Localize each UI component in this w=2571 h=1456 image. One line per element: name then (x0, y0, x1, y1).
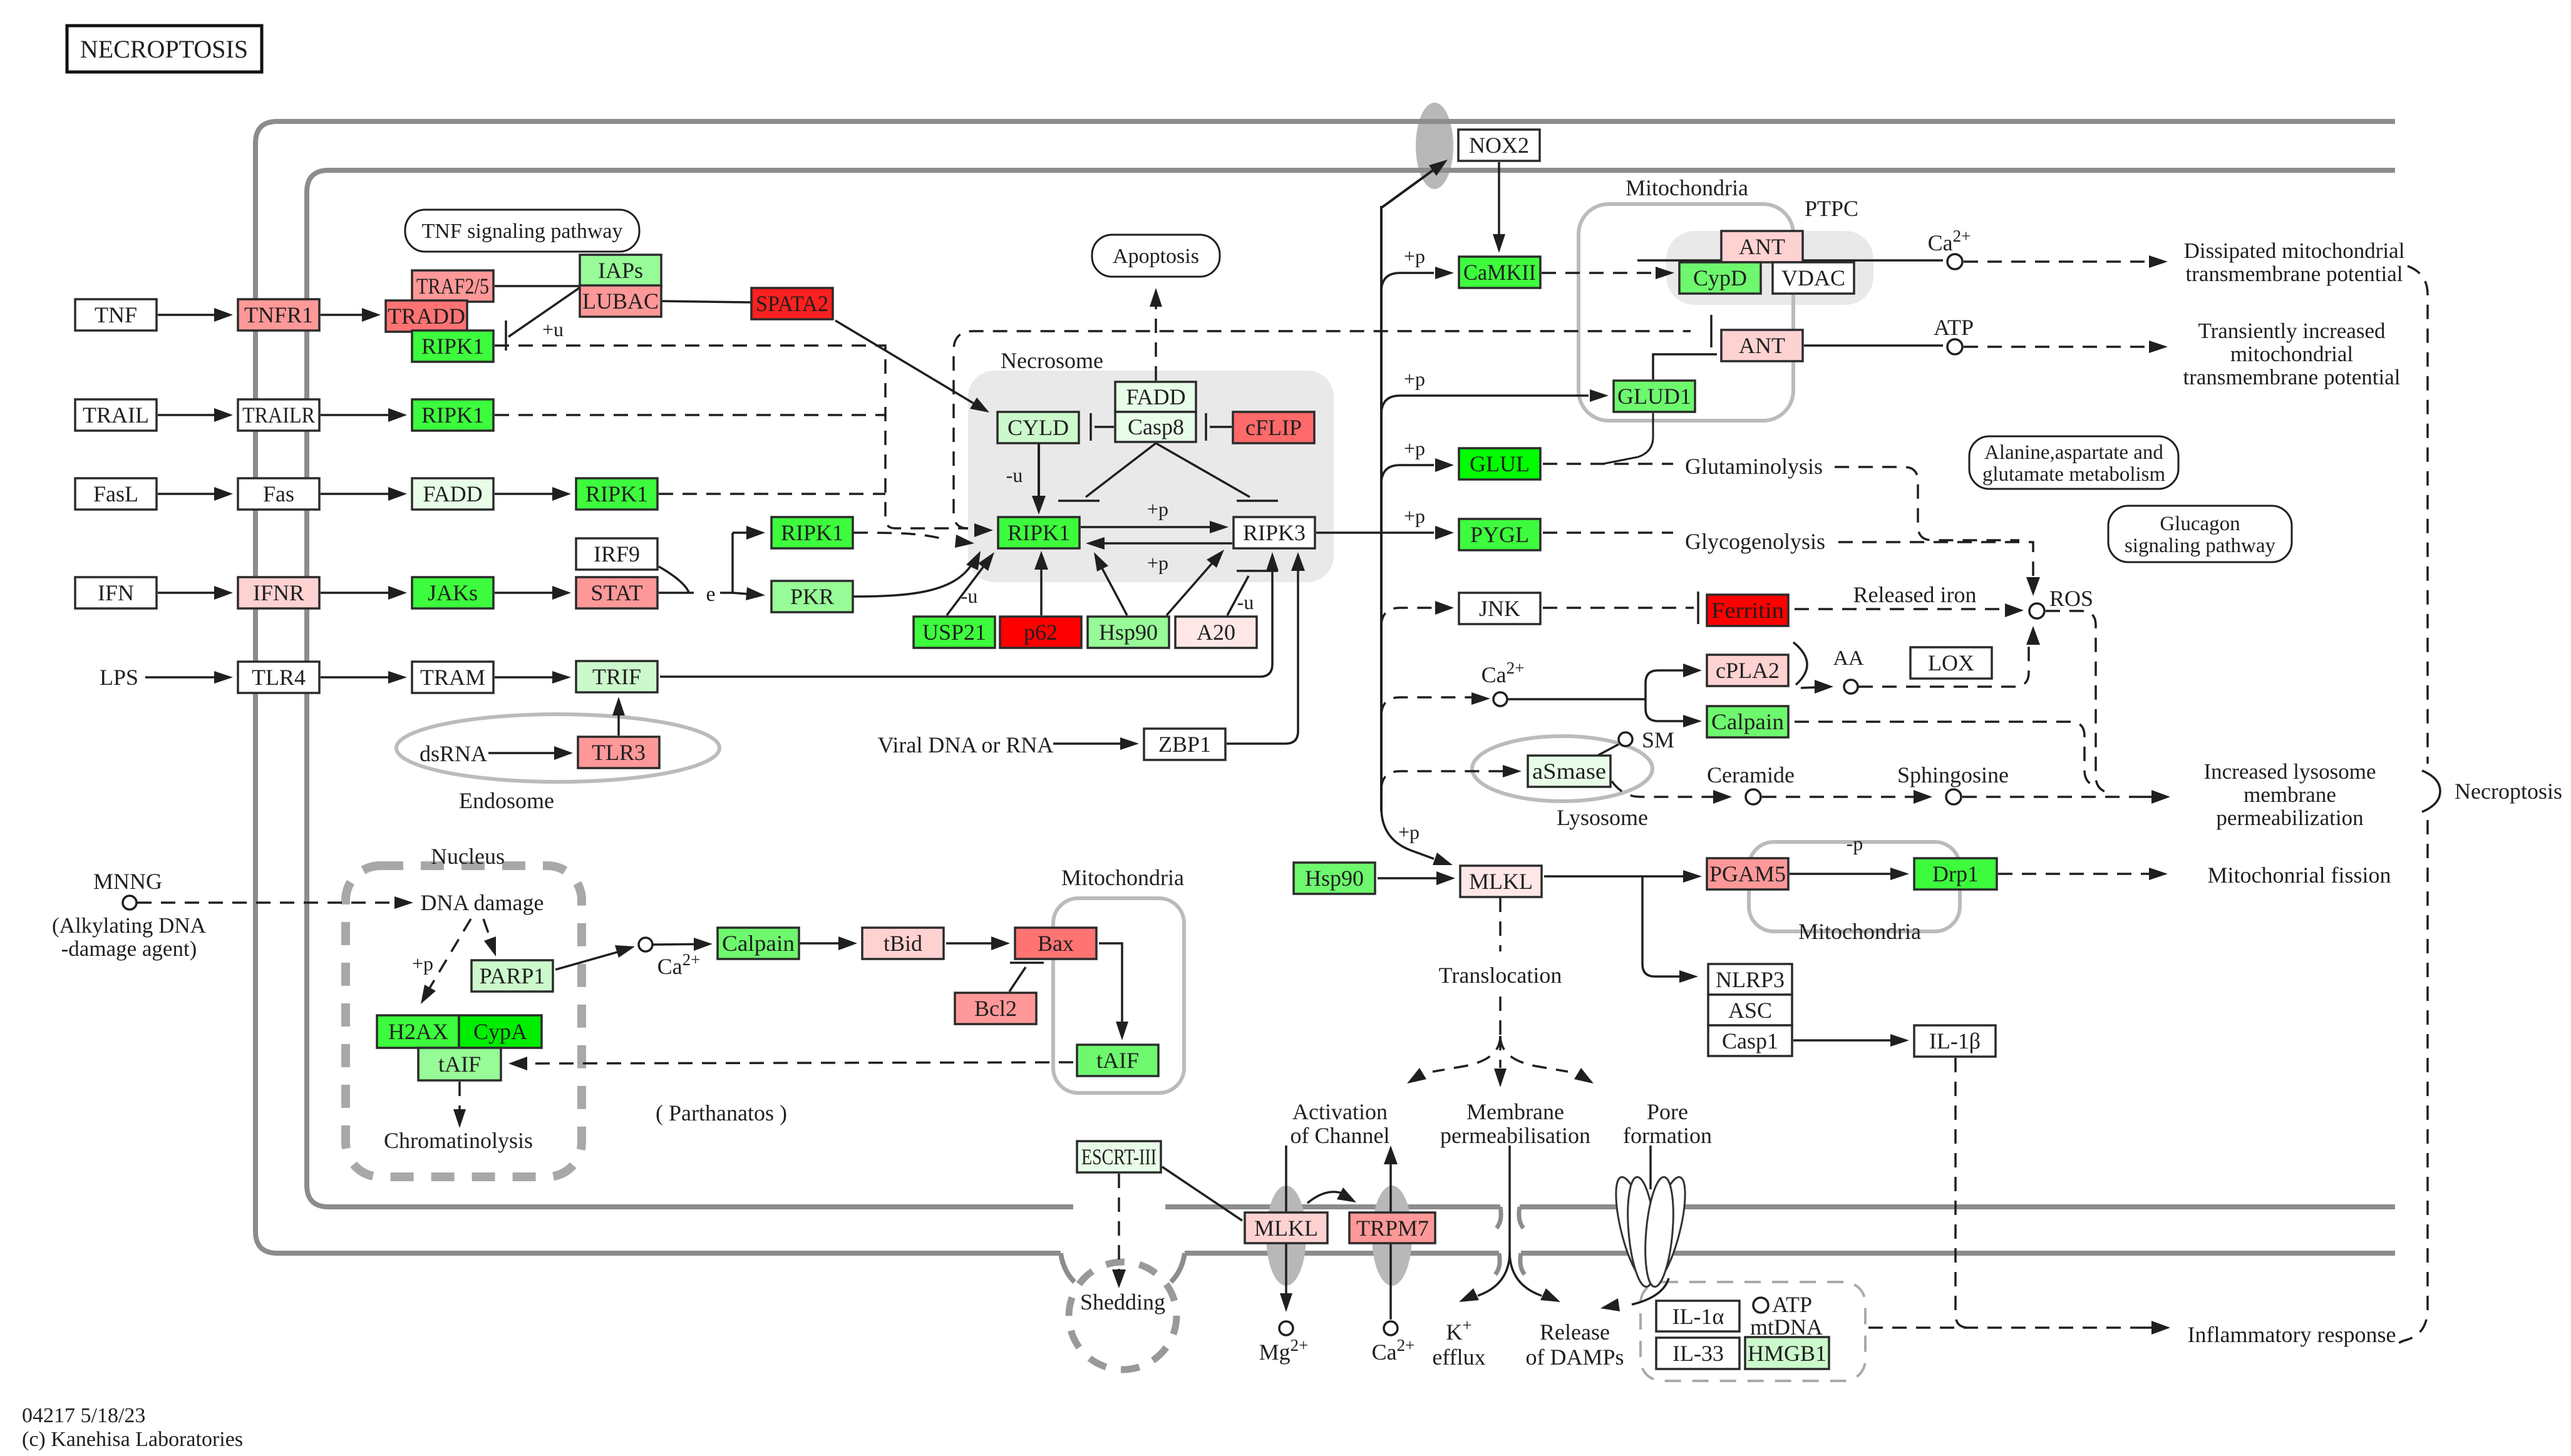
wire Ca to Calpain (653, 943, 700, 945)
wire RIPK1 (IFN row) dashed to necrosome (853, 533, 945, 540)
svg-text:LOX: LOX (1928, 650, 1974, 675)
node AA circle (1844, 680, 1858, 694)
wire vertical to NOX2 (1381, 168, 1436, 208)
gene box HMGB1 (1745, 1337, 1829, 1369)
node ATP circle (1947, 339, 1962, 354)
wire tAIF to Chromatinolysis dashed (458, 1082, 461, 1113)
svg-text:RIPK1: RIPK1 (1007, 520, 1070, 545)
wire Fas to FADD (321, 493, 394, 495)
necrosome gray blob (968, 371, 1334, 582)
svg-text:CaMKII: CaMKII (1463, 260, 1536, 285)
gene box RIPK1 (necrosome) (998, 517, 1079, 548)
wire IFNR to JAKs (321, 592, 394, 594)
svg-text:Endosome: Endosome (459, 788, 554, 813)
endosome ellipse (396, 714, 719, 782)
wire ANT to ATP circle (1804, 344, 1943, 347)
svg-text:CYLD: CYLD (1007, 415, 1069, 440)
svg-text:glutamate metabolism: glutamate metabolism (1982, 463, 2166, 486)
gene box FADD (Fas row) (412, 478, 493, 510)
node Ca circle (nucleus) (639, 938, 652, 951)
svg-text:-p: -p (1847, 832, 1863, 854)
wire Calpain to tBid (800, 942, 845, 945)
svg-text:+p: +p (1404, 367, 1425, 390)
svg-text:FADD: FADD (423, 481, 482, 506)
svg-text:+p: +p (1147, 498, 1168, 520)
svg-text:Mitochondria: Mitochondria (1061, 865, 1184, 890)
svg-text:Shedding: Shedding (1080, 1289, 1165, 1315)
branch +p to GLUD1 (1381, 396, 1589, 414)
wire TNF to TNFR1 (158, 314, 220, 316)
svg-text:USP21: USP21 (922, 620, 986, 645)
branch +p to GLUL (1381, 465, 1434, 484)
gene box JNK (1459, 593, 1540, 624)
wire Ca2+ to dissipated dashed (1964, 260, 2155, 263)
wire USP21 -u to RIPK1 (947, 562, 987, 615)
node Sphingosine circle (1946, 789, 1961, 804)
shedding bulge throat left (1061, 1253, 1074, 1282)
channel capsule MLKL (1266, 1186, 1306, 1286)
svg-text:TNF signaling pathway: TNF signaling pathway (421, 220, 622, 243)
title box NECROPTOSIS (67, 26, 262, 72)
svg-text:LUBAC: LUBAC (582, 289, 659, 314)
svg-text:JAKs: JAKs (428, 580, 478, 605)
wire translocation fanout dashed (1499, 997, 1502, 1036)
svg-text:TLR4: TLR4 (252, 665, 306, 690)
wire RIPK1 (FasL row) dashed (659, 493, 885, 495)
svg-text:GLUD1: GLUD1 (1617, 384, 1691, 409)
svg-text:JNK: JNK (1479, 596, 1520, 621)
wire CYLD -u to RIPK1 (1038, 443, 1040, 501)
svg-text:TNFR1: TNFR1 (244, 302, 313, 327)
svg-text:aSmase: aSmase (1532, 759, 1606, 784)
wire Drp1 to fission dashed (1998, 873, 2155, 875)
node Ca2+ circle (cytosol) (1493, 692, 1507, 706)
gene box Casp1 (1708, 1025, 1792, 1056)
wire RIPK1 to RIPK3 +p (1081, 526, 1216, 528)
node Ca2+ circle (dissipated) (1947, 254, 1962, 269)
channel capsule TRPM7 (1372, 1186, 1412, 1286)
wire IRF9 to e (659, 567, 689, 592)
svg-text:ROS: ROS (2049, 586, 2093, 611)
gene box TRPM7 (1349, 1212, 1435, 1243)
wire GLUD1 to ANT (1653, 354, 1717, 379)
svg-text:IL-1β: IL-1β (1929, 1028, 1981, 1054)
wire Hsp90 to MLKL (1378, 877, 1443, 879)
wire dsRNA to TLR3 (488, 752, 560, 754)
wire TRAIL to TRAILR (158, 414, 220, 416)
svg-text:ZBP1: ZBP1 (1158, 732, 1211, 757)
svg-text:SPATA2: SPATA2 (756, 291, 828, 316)
wire permeabilisation to DAMPs (1510, 1252, 1542, 1296)
wire tBid to Bax (946, 942, 997, 945)
gene box TLR3 (578, 737, 659, 768)
node Ceramide circle (1746, 789, 1761, 804)
ligand box TNF (75, 299, 157, 331)
wire IFN to IFNR (158, 592, 220, 594)
wire PYGL to Glycogenolysis dashed (1543, 531, 1673, 534)
svg-text:Calpain: Calpain (1711, 709, 1784, 734)
gene box MLKL (1460, 866, 1542, 897)
wire Bcl2 tee to Bax (1009, 967, 1026, 992)
svg-text:Sphingosine: Sphingosine (1897, 762, 2009, 787)
svg-text:-damage agent): -damage agent) (61, 936, 197, 961)
svg-text:VDAC: VDAC (1781, 265, 1845, 290)
svg-text:Released iron: Released iron (1853, 582, 1977, 607)
svg-text:permeabilisation: permeabilisation (1440, 1123, 1590, 1148)
svg-text:RIPK3: RIPK3 (1243, 520, 1306, 545)
svg-text:( Parthanatos ): ( Parthanatos ) (656, 1100, 787, 1125)
svg-text:Release: Release (1540, 1320, 1610, 1345)
svg-text:TRPM7: TRPM7 (1356, 1216, 1429, 1241)
svg-text:PKR: PKR (790, 584, 834, 609)
wire ZBP1 up to RIPK3 (1227, 567, 1298, 744)
svg-text:Mitochondria: Mitochondria (1626, 175, 1748, 200)
svg-text:+u: +u (542, 318, 564, 341)
wire aSmase to SM (1592, 744, 1619, 759)
wire TRAF2/5 to LUBAC complex (495, 285, 580, 287)
wire Glycogenolysis dashed to ROS (1838, 542, 2033, 582)
svg-text:Lysosome: Lysosome (1557, 805, 1648, 830)
svg-text:FasL: FasL (93, 481, 138, 506)
gene box cFLIP (1233, 412, 1314, 443)
svg-text:Hsp90: Hsp90 (1099, 620, 1158, 645)
svg-text:+p: +p (1404, 437, 1425, 459)
cell membrane channel capsule for NOX2 (1416, 103, 1453, 189)
svg-text:tBid: tBid (884, 931, 922, 956)
svg-text:PYGL: PYGL (1470, 522, 1529, 547)
gene box CypA (459, 1015, 542, 1048)
ligand box TRAIL (75, 399, 157, 431)
mitochondria compartment (tAIF) (1053, 898, 1184, 1093)
svg-text:transmembrane potential: transmembrane potential (2183, 365, 2401, 389)
svg-text:Glycogenolysis: Glycogenolysis (1685, 529, 1825, 554)
svg-text:IFNR: IFNR (253, 580, 304, 605)
svg-text:RIPK1: RIPK1 (781, 520, 843, 545)
gene box ASC (1708, 995, 1792, 1025)
svg-text:NOX2: NOX2 (1469, 133, 1529, 158)
svg-text:Increased lysosome: Increased lysosome (2203, 759, 2376, 784)
svg-text:TLR3: TLR3 (592, 740, 646, 765)
cell membrane outer line (255, 121, 2395, 1253)
wire TRAM to TRIF (495, 676, 559, 679)
gene box CaMKII (1459, 257, 1540, 288)
wire GLUL to Glutaminolysis dashed (1543, 463, 1673, 465)
gene box RIPK3 (1234, 517, 1315, 548)
oval Apoptosis (1092, 235, 1220, 277)
wire STAT to e (659, 592, 694, 594)
svg-text:Casp1: Casp1 (1722, 1028, 1778, 1054)
svg-text:RIPK1: RIPK1 (421, 402, 484, 428)
svg-text:ESCRT-III: ESCRT-III (1081, 1144, 1157, 1169)
svg-text:Glutaminolysis: Glutaminolysis (1685, 454, 1823, 479)
wire SPATA2 to necrosome (835, 320, 974, 404)
wire ESCRT-III to MLKL (1162, 1167, 1242, 1221)
branch Ca2+ dashed (1381, 697, 1475, 716)
svg-text:Inflammatory response: Inflammatory response (2188, 1322, 2396, 1347)
svg-text:signaling pathway: signaling pathway (2125, 535, 2276, 557)
svg-text:Ferritin: Ferritin (1711, 598, 1784, 623)
gene box Calpain (lysosome) (1707, 706, 1788, 737)
receptor box TRAILR (238, 399, 319, 431)
gene box Hsp90 (necrosome) (1088, 617, 1169, 648)
gene box VDAC (1773, 262, 1854, 294)
svg-text:Necrosome: Necrosome (1001, 348, 1103, 373)
wire NOX2 to CaMKII (1498, 162, 1500, 238)
node SM circle (1619, 732, 1632, 746)
wire TRAILR to RIPK1 (321, 414, 394, 416)
wire Viral DNA to ZBP1 (1053, 742, 1126, 745)
gene box RIPK1 (IFN row) (771, 517, 853, 548)
wire MNNG dashed to DNA damage (137, 901, 401, 904)
gene box GLUD1 (1614, 381, 1695, 412)
gene box IAPs (580, 255, 661, 286)
svg-text:permeabilization: permeabilization (2216, 806, 2363, 830)
wire Mg channel line (1285, 1146, 1287, 1295)
svg-text:+p: +p (1404, 505, 1425, 527)
wire Glutaminolysis dashed corner (1835, 467, 2019, 540)
gene box Casp8 (1115, 412, 1196, 442)
svg-text:Apoptosis: Apoptosis (1113, 245, 1199, 268)
gene box aSmase (1528, 756, 1610, 787)
receptor box TLR4 (238, 662, 319, 693)
gene box PKR (771, 581, 853, 612)
wire Casp8 tee to RIPK1 (1086, 443, 1156, 497)
wire mito tAIF dashed to nucleus tAIF (530, 1062, 1073, 1064)
wire CYLD to Casp8 tee (1095, 426, 1114, 428)
gene box IL-1b (1914, 1025, 1996, 1057)
svg-text:MLKL: MLKL (1469, 869, 1533, 894)
wire LUBAC to SPATA2 (662, 301, 751, 302)
wire MLKL branch to NLRP3 (1642, 876, 1681, 977)
oval Alanine aspartate (1969, 436, 2178, 489)
svg-text:Translocation: Translocation (1439, 963, 1562, 988)
svg-text:(c) Kanehisa Laboratories: (c) Kanehisa Laboratories (22, 1428, 243, 1451)
gene box JAKs (412, 577, 493, 608)
wire MLKL right to PGAM5 (1544, 875, 1686, 878)
gene box NLRP3 (1708, 964, 1792, 995)
wire JAKs to STAT (495, 592, 559, 594)
wire e to RIPK1 and PKR bracket (720, 592, 733, 594)
wire pore to DAMPs (1632, 1278, 1669, 1305)
gene box STAT (576, 577, 657, 608)
wire RIPK3 to PYGL (1316, 531, 1434, 534)
svg-text:TRAIL: TRAIL (83, 402, 149, 428)
shedding vesicle dashed circle (1069, 1262, 1177, 1370)
svg-text:AA: AA (1833, 647, 1864, 670)
svg-text:+p: +p (412, 952, 433, 975)
svg-text:Viral DNA or RNA: Viral DNA or RNA (878, 732, 1054, 757)
wire TLR3 to TRIF (617, 709, 620, 736)
ligand box IFN (75, 577, 157, 608)
svg-text:TRIF: TRIF (592, 664, 641, 689)
wire RIPK3 to RIPK1 +p (1098, 542, 1232, 545)
svg-text:STAT: STAT (590, 580, 642, 605)
nucleus dashed compartment (346, 866, 582, 1177)
svg-text:membrane: membrane (2244, 782, 2336, 807)
wire permeabilisation to K efflux (1478, 1252, 1510, 1296)
svg-text:+p: +p (1404, 245, 1425, 267)
gene box Ferritin (1707, 595, 1788, 626)
gene box Bcl2 (955, 993, 1036, 1024)
gene box RIPK1 (TRAIL row) (412, 399, 493, 431)
gene box TRAF2/5 (412, 270, 493, 302)
svg-text:IL-33: IL-33 (1672, 1341, 1724, 1366)
wire complex to Ca2+ circle (1637, 259, 1943, 262)
wire ESCRT-III dashed shedding (1118, 1174, 1120, 1271)
gene box USP21 (914, 617, 995, 648)
svg-text:Bcl2: Bcl2 (974, 996, 1017, 1021)
gene box tAIF (nucleus) (418, 1048, 501, 1080)
wire Bax to tAIF (1099, 943, 1122, 1025)
svg-text:MNNG: MNNG (93, 869, 162, 894)
node ATP circle (DAMPs) (1753, 1298, 1768, 1313)
wire PARP1 to Ca circle (555, 950, 626, 970)
svg-text:Alanine,aspartate and: Alanine,aspartate and (1984, 441, 2163, 464)
wire CaMKII to CypD dashed (1542, 272, 1662, 274)
wire FasL to Fas (158, 493, 220, 495)
wire Ca2+ to cPLA2/Calpain bracket (1508, 698, 1646, 700)
wire ATP to transiently dashed (1964, 346, 2155, 348)
svg-text:ANT: ANT (1739, 333, 1785, 358)
receptor box TNFR1 (238, 299, 319, 331)
svg-text:Bax: Bax (1038, 931, 1074, 956)
branch +p to MLKL (1381, 807, 1434, 859)
gene box cPLA2 (1707, 655, 1788, 686)
svg-text:ATP: ATP (1772, 1292, 1812, 1317)
wire Casp8 tee to RIPK3 (1156, 443, 1250, 497)
wire RIPK3 main vertical (1380, 206, 1383, 811)
wire MLKL to TRPM7 arc (1307, 1192, 1350, 1203)
svg-text:Necroptosis: Necroptosis (2455, 779, 2562, 804)
svg-text:IRF9: IRF9 (594, 541, 640, 567)
gene box Drp1 (1914, 858, 1997, 889)
wire JNK to Ferritin tee dashed (1543, 607, 1694, 609)
svg-text:tAIF: tAIF (438, 1052, 481, 1077)
wire MLKL translocation dashed (1499, 898, 1502, 951)
svg-text:formation: formation (1623, 1123, 1712, 1148)
gene box CypD (1679, 262, 1761, 294)
gene box LUBAC (580, 285, 661, 317)
gene box IL-1a (1656, 1301, 1739, 1331)
svg-text:of Channel: of Channel (1291, 1123, 1390, 1148)
gene box LOX (1910, 647, 1992, 679)
wire IAPs +u to RIPK1 (508, 287, 581, 337)
svg-text:RIPK1: RIPK1 (421, 334, 484, 359)
svg-text:PTPC: PTPC (1805, 196, 1858, 221)
wire Sphingosine to outcome dashed (1962, 796, 2131, 798)
svg-text:IL-1α: IL-1α (1672, 1304, 1724, 1329)
gene box tBid (862, 928, 944, 959)
node MNNG circle (123, 896, 137, 910)
gene box GLUL (1459, 448, 1540, 479)
wire RIPK1 (TRAIL row) dashed (495, 414, 885, 416)
svg-text:CypA: CypA (473, 1019, 527, 1044)
gene box FADD (necrosome) (1115, 382, 1196, 412)
gene box Hsp90 (MLKL) (1294, 863, 1375, 894)
gene box ANT (PTPC) (1721, 231, 1803, 262)
wire Ca influx channel line (1384, 1146, 1398, 1164)
gene box A20 (1175, 617, 1257, 648)
ligand box FasL (75, 478, 157, 510)
wire Hsp90 to RIPK3 (1167, 560, 1215, 615)
gene box TRIF (576, 661, 657, 692)
svg-text:Glucagon: Glucagon (2160, 513, 2240, 535)
svg-text:Mitochondria: Mitochondria (1798, 919, 1921, 944)
svg-text:ANT: ANT (1739, 234, 1785, 259)
svg-text:tAIF: tAIF (1096, 1048, 1139, 1073)
svg-text:PGAM5: PGAM5 (1709, 861, 1786, 886)
svg-text:IFN: IFN (98, 580, 134, 605)
svg-text:DNA damage: DNA damage (421, 890, 544, 915)
pore shape (1609, 1174, 1693, 1288)
wire cPLA2 reaction hook to AA (1793, 642, 1807, 685)
wire cFLIP to Casp8 tee (1210, 426, 1232, 428)
cell membrane inner line (307, 170, 2395, 1207)
svg-text:Drp1: Drp1 (1932, 861, 1979, 886)
wire FADD to RIPK1 (495, 493, 559, 495)
svg-text:GLUL: GLUL (1470, 451, 1530, 476)
gene box ANT (1721, 330, 1803, 361)
gene box PYGL (1459, 519, 1540, 550)
wire membrane permeabilisation line (1508, 1146, 1511, 1252)
wire FADD to Apoptosis dashed (1155, 300, 1157, 381)
wire TLR4 to TRAM (321, 676, 394, 679)
gene box PGAM5 (1707, 858, 1788, 889)
svg-text:Transiently increased: Transiently increased (2198, 319, 2386, 343)
shedding bulge throat right (1171, 1253, 1185, 1282)
necrosome dashed boundary (954, 331, 1691, 528)
svg-text:NLRP3: NLRP3 (1716, 967, 1785, 992)
necroptosis bracket (2422, 771, 2440, 812)
svg-text:IAPs: IAPs (598, 258, 643, 283)
wire Ceramide to Sphingosine dashed (1762, 796, 1921, 798)
branch JNK dashed (1381, 608, 1434, 627)
svg-text:mitochondrial: mitochondrial (2230, 342, 2354, 366)
oval TNF signaling pathway (405, 210, 639, 252)
svg-text:TRAF2/5: TRAF2/5 (416, 274, 489, 299)
svg-text:of DAMPs: of DAMPs (1525, 1345, 1624, 1370)
svg-text:TRAILR: TRAILR (242, 402, 315, 428)
mitochondria compartment (fission) (1749, 842, 1960, 931)
svg-text:Membrane: Membrane (1466, 1099, 1564, 1124)
wire Ferritin to ROS dashed (1795, 608, 2009, 610)
svg-text:-u: -u (1237, 591, 1254, 613)
svg-text:Nucleus: Nucleus (431, 844, 505, 869)
svg-text:p62: p62 (1024, 620, 1058, 645)
svg-text:CypD: CypD (1693, 265, 1747, 290)
svg-text:transmembrane potential: transmembrane potential (2186, 262, 2403, 286)
wire TNFR1 to TRADD (321, 314, 368, 316)
gene box RIPK1 (Fas row) (576, 478, 657, 510)
wire Calpain dashed to lysosome outcome (1795, 722, 2094, 786)
svg-text:HMGB1: HMGB1 (1748, 1341, 1826, 1366)
membrane curl at permeabilisation inner right (1519, 1207, 1523, 1228)
gene box MLKL (membrane) (1245, 1212, 1327, 1243)
wire RIPK1 (TNF row) dashed bus (495, 346, 968, 528)
gene box CYLD (997, 412, 1079, 443)
gene box PARP1 (471, 960, 553, 992)
svg-text:LPS: LPS (100, 665, 138, 690)
branch +p to CaMKII (1381, 273, 1434, 292)
svg-text:04217 5/18/23: 04217 5/18/23 (22, 1404, 145, 1427)
gene box Bax (1015, 928, 1096, 959)
oval Glucagon (2108, 506, 2292, 562)
DAMPs dashed rounded box (1641, 1282, 1865, 1381)
svg-text:TRAM: TRAM (420, 665, 485, 690)
svg-text:MLKL: MLKL (1254, 1216, 1318, 1241)
svg-text:FADD: FADD (1126, 384, 1185, 409)
mitochondria compartment (top right) (1579, 204, 1793, 421)
